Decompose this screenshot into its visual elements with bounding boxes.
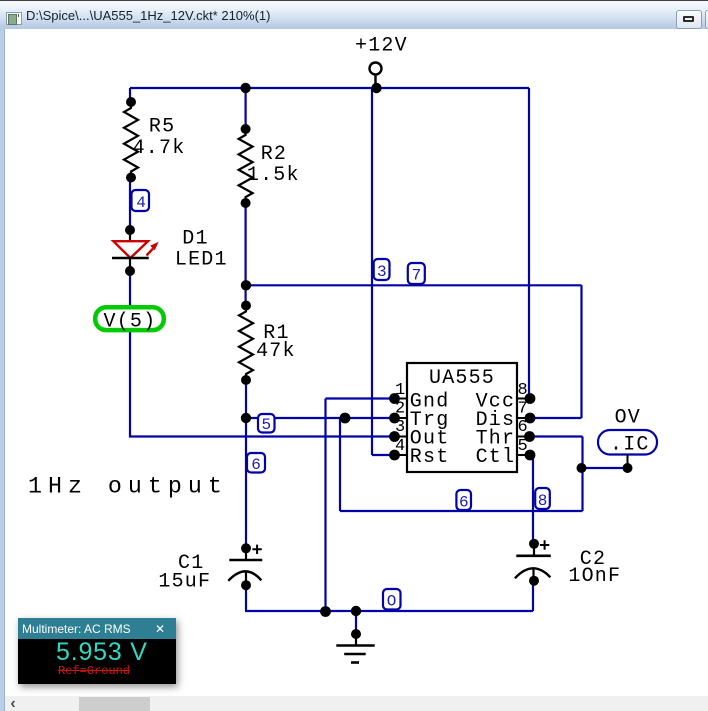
- wire net6 horizontal y=511: [340, 510, 583, 512]
- ground: [336, 611, 374, 663]
- ground symbol dot: [351, 629, 361, 639]
- node Trg-R1 junction: [241, 413, 251, 423]
- svg-text:6: 6: [459, 493, 469, 511]
- power terminal +12V: [370, 63, 382, 89]
- node .IC junction: [577, 463, 587, 473]
- LED terminals: [125, 225, 135, 235]
- wire Trg pin2 horizontal: [246, 417, 394, 419]
- node label 4: [132, 190, 150, 212]
- pin dots left: [389, 393, 400, 404]
- svg-text:D1: D1: [182, 227, 208, 250]
- svg-text:O: O: [387, 593, 397, 611]
- node label 5: [258, 414, 275, 434]
- wire Ctl to C2 vertical x=533: [532, 455, 534, 611]
- node ground stub junction: [351, 606, 361, 616]
- svg-text:5: 5: [262, 416, 272, 434]
- node label 6 left: [247, 453, 265, 474]
- R1 terminals: [241, 301, 251, 311]
- svg-text:+12V: +12V: [355, 34, 408, 57]
- op-amp/IC U1 UA555 body: [407, 363, 517, 472]
- svg-text:7: 7: [412, 267, 422, 285]
- wire R2/R1/C1 branch vertical: [245, 88, 248, 611]
- wire .IC horizontal: [582, 467, 628, 469]
- junction and pin dots: [125, 83, 633, 639]
- wire Gnd branch vertical to ground rail: [324, 399, 326, 612]
- svg-text:.IC: .IC: [610, 434, 650, 457]
- capacitor C2: [515, 540, 551, 581]
- resistor R5: [124, 102, 138, 178]
- left window strip: [0, 29, 5, 711]
- pin stubs right: [517, 399, 534, 456]
- svg-text:R5: R5: [149, 116, 175, 139]
- C2 terminals: [529, 539, 539, 549]
- svg-text:4: 4: [136, 194, 146, 212]
- pin stubs left: [390, 399, 407, 456]
- restore button: [676, 10, 702, 29]
- resistor R2: [239, 129, 253, 203]
- wire Trg branch vertical x=340: [339, 418, 341, 511]
- C1 terminals: [241, 543, 251, 553]
- window title text: [26, 8, 271, 23]
- wire Rst pin4 horizontal: [372, 454, 394, 456]
- svg-text:LED1: LED1: [175, 249, 228, 272]
- node label 7: [408, 263, 425, 285]
- wire net7 vertical x=581.5: [580, 285, 582, 418]
- wire Thr pin6 horizontal: [530, 435, 583, 437]
- node R1 top junction: [241, 280, 251, 290]
- window title bar: [0, 0, 708, 29]
- node .IC terminal: [623, 463, 633, 473]
- node label 0: [383, 589, 401, 611]
- wire Thr branch vertical x=582.5: [581, 437, 583, 512]
- svg-text:1OnF: 1OnF: [568, 565, 621, 588]
- initial-condition flag .IC oval: [598, 430, 657, 468]
- wire left branch vertical (R5/LED): [129, 88, 131, 437]
- node label 3: [374, 259, 390, 281]
- svg-text:V(5): V(5): [104, 310, 157, 333]
- wire Vcc vertical x=529: [528, 88, 530, 399]
- voltage probe V(5): [95, 307, 164, 333]
- svg-text:47k: 47k: [256, 340, 296, 363]
- node label 6 bottom: [456, 490, 471, 511]
- svg-text:OV: OV: [615, 407, 641, 430]
- wire +12V to Rst vertical x=372: [371, 88, 373, 455]
- pin dots right: [525, 393, 536, 404]
- node Trg branch junction: [340, 413, 351, 424]
- svg-text:3: 3: [377, 263, 387, 281]
- svg-text:6: 6: [251, 456, 261, 474]
- node ground rail Gnd junction: [320, 606, 331, 617]
- wire top horizontal +12V rail: [130, 87, 529, 89]
- svg-text:Ctl: Ctl: [476, 446, 516, 469]
- R5 terminals: [126, 97, 136, 107]
- wire Dis pin7 horizontal: [530, 417, 582, 419]
- wire Out pin3 horizontal to LED branch: [129, 435, 394, 437]
- partial close button at edge: [705, 10, 708, 29]
- wire Gnd pin1 horizontal: [326, 397, 395, 399]
- node R2 top junction: [240, 83, 250, 93]
- R2 terminals: [241, 124, 251, 134]
- wire net3 horizontal y=285: [246, 284, 582, 286]
- svg-text:4.7k: 4.7k: [133, 137, 186, 160]
- node +12V junction: [371, 83, 381, 93]
- horizontal scrollbar: [5, 696, 708, 711]
- svg-text:R2: R2: [261, 143, 287, 166]
- resistor R1: [239, 306, 253, 381]
- svg-text:1.5k: 1.5k: [247, 164, 300, 187]
- app icon: [6, 12, 22, 25]
- svg-text:15uF: 15uF: [158, 571, 211, 594]
- LED D1: [112, 230, 157, 271]
- capacitor C1: [228, 545, 262, 585]
- multimeter popup: [18, 618, 176, 684]
- svg-text:8: 8: [538, 492, 548, 510]
- svg-text:UA555: UA555: [429, 367, 495, 390]
- svg-text:Rst: Rst: [410, 446, 450, 469]
- svg-text:1Hz output: 1Hz output: [28, 473, 228, 499]
- node label 8: [535, 488, 550, 510]
- wire bottom ground rail: [245, 610, 533, 612]
